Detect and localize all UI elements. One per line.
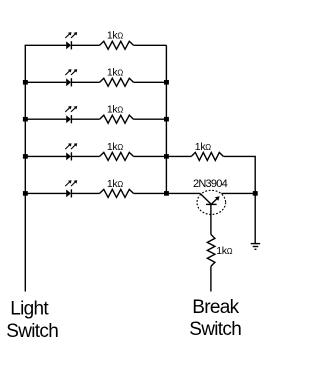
svg-text:1kΩ: 1kΩ — [216, 245, 233, 257]
wire: row 2 resistor to right bus — [134, 81, 167, 83]
node: junction left bus row 2 — [23, 80, 28, 85]
svg-text:Switch: Switch — [6, 321, 58, 342]
wire: Q1 to right rail junction — [221, 192, 255, 194]
ground — [251, 244, 261, 250]
wire: row 4 right bus to resistor R6 — [166, 155, 191, 157]
svg-text:Switch: Switch — [189, 319, 241, 340]
wire: row 3 resistor to right bus — [134, 118, 167, 120]
node: junction right bus row 2 — [164, 80, 169, 85]
wire: row 2 from left bus to LED D2 — [25, 81, 67, 83]
node: junction left bus row 4 — [23, 154, 28, 159]
node: junction left bus row 5 — [23, 191, 28, 196]
svg-text:1kΩ: 1kΩ — [107, 104, 124, 116]
wire: row 3 from left bus to LED D3 — [25, 118, 67, 120]
wire: row 5 (base) right bus to Q1 — [166, 192, 200, 194]
svg-text:1kΩ: 1kΩ — [107, 141, 124, 153]
wire: Q1 emitter down to resistor R7 — [210, 204, 212, 234]
node: junction right bus row 3 — [164, 117, 169, 122]
wire: left vertical bus (Light Switch line) — [24, 45, 26, 291]
resistor R5 — [100, 189, 134, 197]
resistor R6 (collector pull-up 1k) — [191, 152, 223, 160]
node: junction left bus row 3 — [23, 117, 28, 122]
resistor R4 — [100, 152, 134, 160]
label Break Switch — [189, 297, 241, 340]
LED D2 — [65, 69, 77, 86]
wire: R7 down to Break Switch stub — [210, 266, 212, 291]
LED D3 — [65, 106, 77, 123]
resistor R2 — [100, 78, 134, 86]
wire: row 1 LED to resistor R1 — [71, 44, 99, 46]
transistor Q1 2N3904 — [197, 190, 226, 214]
wire: right vertical bus — [165, 45, 167, 193]
resistor R7 (emitter 1k) — [207, 234, 215, 266]
node: junction at right rail and collector wire — [253, 191, 258, 196]
resistor R3 — [100, 115, 134, 123]
wire: row 1 resistor to right bus — [134, 44, 167, 46]
wire: row 5 LED to resistor R5 — [71, 192, 99, 194]
wire: row 3 LED to resistor R3 — [71, 118, 99, 120]
node: junction right bus row 5 — [164, 191, 169, 196]
wire: row 4 from left bus to LED D4 — [25, 155, 67, 157]
svg-text:2N3904: 2N3904 — [193, 178, 228, 190]
wire: row 5 from left bus to LED D5 — [25, 192, 67, 194]
wire: row 5 resistor to right bus — [134, 192, 168, 194]
resistor R1 — [100, 41, 134, 49]
wire: row 1 from left bus to LED D1 — [25, 44, 67, 46]
label Light Switch — [6, 299, 58, 342]
wire: row 4 LED to resistor R4 — [71, 155, 99, 157]
wire: R6 to top-right corner down to ground rail — [223, 156, 255, 243]
svg-text:1kΩ: 1kΩ — [107, 67, 124, 79]
svg-text:Break: Break — [192, 297, 239, 318]
LED D4 — [65, 143, 77, 160]
wire: row 2 LED to resistor R2 — [71, 81, 99, 83]
LED D1 — [65, 32, 77, 49]
LED D5 — [65, 180, 77, 197]
svg-text:1kΩ: 1kΩ — [107, 178, 124, 190]
svg-text:1kΩ: 1kΩ — [195, 141, 212, 153]
wire: row 4 resistor to right bus — [134, 155, 167, 157]
svg-text:1kΩ: 1kΩ — [107, 30, 124, 42]
svg-text:Light: Light — [10, 299, 49, 320]
node: junction right bus row 4 — [164, 154, 169, 159]
